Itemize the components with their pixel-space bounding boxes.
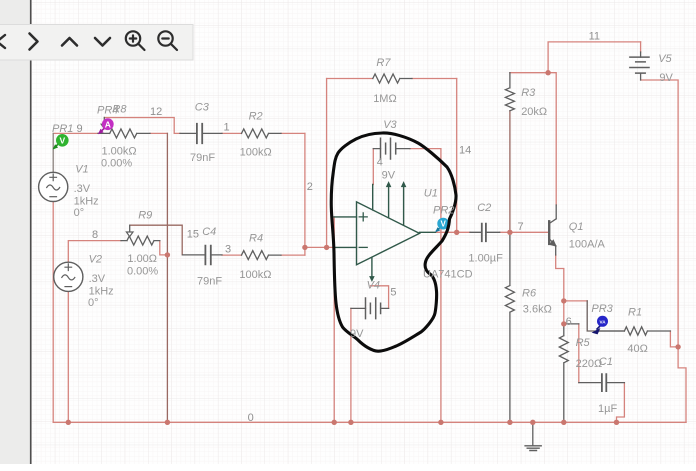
svg-text:V1: V1 — [75, 163, 88, 175]
wire R9 right jog to ground dot — [160, 241, 168, 255]
svg-text:7: 7 — [518, 221, 524, 233]
wire node 9 row — [53, 132, 98, 134]
wire V2 bottom to rail — [67, 291, 69, 422]
wire output row — [436, 231, 549, 233]
source V1 — [39, 172, 68, 201]
svg-text:R3: R3 — [521, 87, 536, 99]
svg-text:79nF: 79nF — [197, 275, 222, 287]
svg-text:Q1: Q1 — [569, 221, 584, 233]
resistor R3 — [505, 73, 514, 111]
svg-text:V3: V3 — [383, 119, 397, 131]
resistor R2 — [242, 129, 282, 138]
hand-drawn blob around op-amp — [331, 133, 456, 351]
svg-text:0.00%: 0.00% — [127, 266, 158, 278]
svg-text:R8: R8 — [112, 104, 127, 116]
wire node 6 to C1 left — [578, 324, 580, 383]
svg-text:R4: R4 — [249, 233, 263, 245]
svg-text:2: 2 — [307, 181, 313, 193]
resistor R5 — [559, 324, 568, 422]
svg-text:V: V — [59, 135, 65, 145]
svg-text:C3: C3 — [195, 102, 210, 114]
resistor R1 — [596, 327, 670, 335]
wire node 3 C4 to R4 — [222, 254, 242, 256]
wire ground vertical x167 — [166, 133, 168, 422]
toolbar zoom-in icon — [126, 31, 145, 50]
svg-text:.3V: .3V — [74, 183, 91, 195]
wire R1 right to V5 node — [670, 331, 678, 347]
svg-text:R1: R1 — [628, 307, 642, 319]
svg-text:9: 9 — [77, 123, 83, 135]
svg-text:V4: V4 — [367, 280, 380, 292]
wire R3 top row — [510, 72, 548, 74]
svg-text:PR3: PR3 — [591, 303, 613, 315]
capacitor C4 — [183, 251, 281, 260]
svg-text:PR1: PR1 — [52, 123, 73, 135]
wire node 11 jog to collector — [548, 73, 556, 205]
svg-text:14: 14 — [459, 145, 471, 157]
svg-text:8: 8 — [92, 229, 98, 241]
wire R2 right to node 2 — [281, 132, 305, 134]
battery V4 — [351, 307, 389, 309]
svg-text:R9: R9 — [138, 210, 152, 222]
svg-text:9V: 9V — [382, 170, 396, 182]
svg-text:1.00Ω: 1.00Ω — [127, 253, 157, 265]
wire ground rail node 0 — [53, 421, 686, 423]
svg-text:4: 4 — [377, 156, 383, 168]
capacitor C1 — [579, 382, 625, 384]
ground symbol — [532, 422, 534, 445]
wire V3 left to op-amp V+ pin — [372, 149, 374, 185]
svg-text:20kΩ: 20kΩ — [521, 106, 547, 118]
wire V5 bottom return — [641, 42, 686, 422]
svg-text:V: V — [441, 220, 447, 229]
svg-text:C1: C1 — [599, 356, 613, 368]
svg-text:6: 6 — [566, 316, 572, 328]
svg-text:3: 3 — [225, 244, 231, 256]
wire node 14 vertical — [456, 79, 458, 233]
toolbar chevron down — [95, 38, 110, 46]
svg-text:R7: R7 — [376, 57, 391, 69]
wire R7 row left — [327, 78, 373, 80]
toolbar panel — [0, 25, 193, 61]
svg-text:15: 15 — [187, 229, 199, 241]
wire node 1 C3 to R2 — [222, 132, 242, 134]
svg-text:VA: VA — [599, 319, 606, 324]
wire V4 right node 5 — [371, 286, 389, 309]
sidebar/canvas divider line — [30, 0, 32, 464]
wire V3 right to ground — [410, 149, 441, 423]
svg-text:100kΩ: 100kΩ — [239, 269, 271, 281]
svg-text:0: 0 — [248, 412, 254, 424]
svg-text:40Ω: 40Ω — [627, 343, 647, 355]
battery V5 — [640, 52, 642, 80]
node 6 stub to C1 — [564, 323, 579, 325]
wire R7 row right to node 14 — [412, 78, 457, 80]
svg-text:1.00kΩ: 1.00kΩ — [102, 146, 137, 158]
svg-text:100kΩ: 100kΩ — [240, 147, 272, 159]
svg-text:1.00µF: 1.00µF — [468, 253, 503, 265]
resistor R8 — [98, 129, 150, 138]
R8 wiper arrow — [103, 118, 105, 125]
svg-text:R6: R6 — [522, 287, 537, 299]
probe PR2 — [435, 218, 449, 232]
resistor R6 — [505, 232, 514, 422]
wire node 2 vertical — [304, 133, 306, 255]
svg-text:1kHz: 1kHz — [74, 195, 99, 207]
resistor R7 — [373, 74, 412, 83]
wire emitter node to R1 row — [564, 300, 587, 302]
toolbar zoom-out icon — [158, 31, 177, 50]
svg-text:12: 12 — [150, 106, 162, 118]
source V2 — [54, 262, 83, 291]
svg-text:A: A — [105, 119, 111, 129]
wire R9 wiper node 15 to C4 — [130, 225, 182, 255]
resistor R9 — [121, 236, 160, 245]
svg-text:9V: 9V — [659, 72, 673, 84]
wire node 12 R8 wiper to C3 — [105, 118, 181, 134]
svg-text:PR2: PR2 — [433, 205, 454, 217]
svg-text:100A/A: 100A/A — [569, 239, 606, 251]
svg-text:0°: 0° — [74, 207, 85, 219]
wire emitter down — [556, 255, 564, 324]
wire minus input row — [305, 246, 334, 248]
svg-text:11: 11 — [589, 31, 600, 43]
transistor Q1 — [548, 221, 550, 244]
probe PR4 — [98, 118, 114, 134]
wire R3 to C2 node vertical — [509, 111, 511, 233]
wire plus input to ground — [333, 217, 335, 422]
svg-text:79nF: 79nF — [190, 152, 215, 164]
svg-text:1MΩ: 1MΩ — [373, 93, 397, 105]
svg-text:U1: U1 — [424, 188, 438, 200]
wire node 8 row — [68, 241, 121, 263]
op-amp U1 — [334, 182, 436, 280]
svg-text:3.6kΩ: 3.6kΩ — [523, 303, 552, 315]
svg-text:5: 5 — [390, 287, 396, 299]
wire V4 left to rail — [350, 308, 352, 422]
toolbar chevron up — [62, 38, 77, 46]
svg-text:1kHz: 1kHz — [89, 285, 114, 297]
svg-text:C2: C2 — [477, 202, 491, 214]
svg-text:R2: R2 — [249, 111, 263, 123]
wire R8 right to ground vertical — [150, 132, 167, 134]
wire V1 bottom to rail — [52, 202, 54, 423]
svg-text:.3V: .3V — [89, 273, 106, 285]
svg-text:V5: V5 — [658, 53, 672, 65]
svg-text:R5: R5 — [576, 337, 591, 349]
svg-text:1µF: 1µF — [598, 403, 617, 415]
svg-text:9V: 9V — [350, 328, 364, 340]
probe PR3 — [592, 316, 608, 335]
wire R7 feedback vertical — [326, 79, 328, 248]
toolbar partial left icon — [0, 35, 5, 48]
R9 wiper arrow — [129, 225, 131, 232]
svg-text:V2: V2 — [89, 253, 102, 265]
svg-text:1: 1 — [224, 122, 230, 134]
wire V1 top lead — [52, 133, 54, 172]
svg-text:0.00%: 0.00% — [101, 158, 132, 170]
battery V3 — [373, 148, 410, 150]
left sidebar panel — [0, 0, 30, 464]
wire R4 right to node 2 — [281, 254, 305, 256]
wire node 11 row — [548, 42, 641, 73]
probe PR1 — [53, 134, 69, 150]
capacitor C2 — [470, 231, 500, 233]
wire C1 right to rail — [617, 383, 625, 423]
wire emitter to R1 row jog — [587, 301, 624, 331]
svg-text:C4: C4 — [202, 226, 216, 238]
capacitor C3 — [180, 132, 222, 134]
svg-text:UA741CD: UA741CD — [423, 269, 473, 281]
toolbar chevron right — [30, 34, 38, 50]
svg-text:0°: 0° — [88, 297, 99, 309]
